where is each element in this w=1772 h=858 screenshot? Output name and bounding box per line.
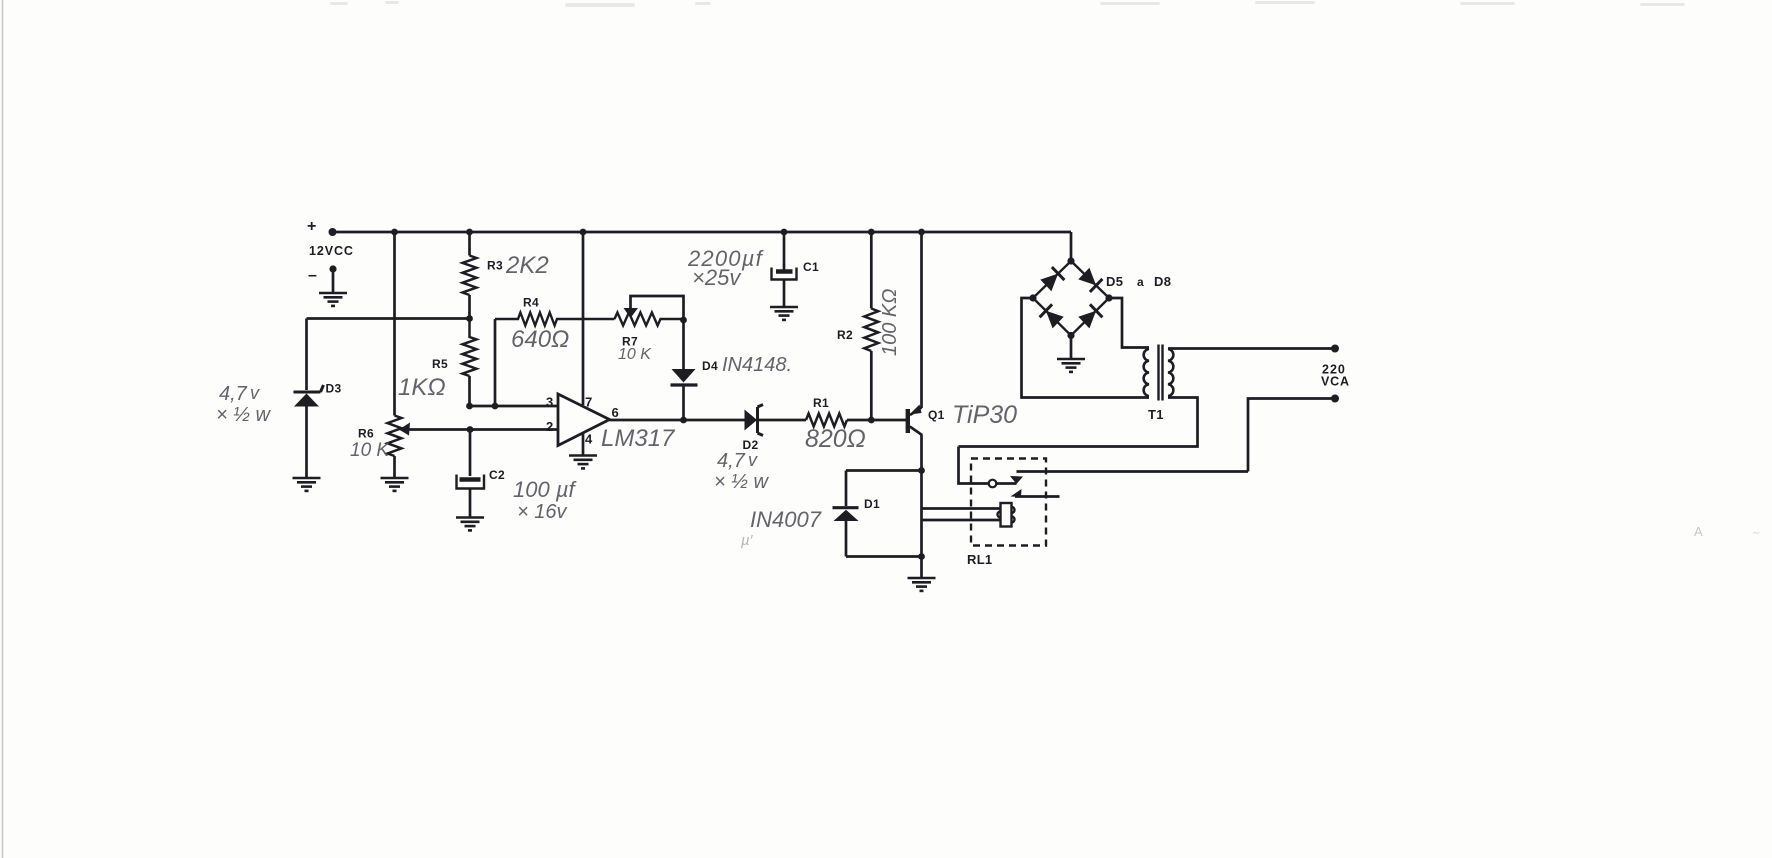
diode D4 1N4148 bbox=[671, 369, 698, 385]
svg-text:12VCC: 12VCC bbox=[309, 244, 354, 258]
svg-text:× ½ w: × ½ w bbox=[714, 471, 769, 493]
svg-text:820Ω: 820Ω bbox=[805, 425, 866, 453]
resistor R7 10K pot body bbox=[615, 313, 684, 326]
svg-text:D1: D1 bbox=[864, 497, 880, 511]
junction dot bridge left bbox=[1029, 294, 1036, 301]
wire D1 anode down bbox=[845, 521, 848, 557]
svg-text:4,7: 4,7 bbox=[717, 450, 746, 472]
junction dot Q1 rail bbox=[918, 229, 925, 236]
svg-text:×25v: ×25v bbox=[692, 265, 742, 290]
wire pin4 to ground bbox=[582, 433, 585, 456]
wire +12V top rail bbox=[333, 231, 1072, 234]
svg-text:C1: C1 bbox=[803, 260, 819, 274]
svg-text:T1: T1 bbox=[1148, 407, 1164, 422]
svg-text:10 K: 10 K bbox=[618, 346, 652, 363]
svg-text:2K2: 2K2 bbox=[505, 252, 549, 279]
svg-text:4: 4 bbox=[585, 432, 593, 447]
resistor R5 1K body bbox=[463, 319, 477, 377]
transistor Q1 emitter arrow bbox=[910, 405, 922, 415]
svg-text:2: 2 bbox=[546, 419, 554, 434]
junction dot R2 rail bbox=[868, 229, 875, 236]
svg-text:VCA: VCA bbox=[1321, 375, 1350, 389]
junction dot D4/output bbox=[680, 417, 687, 424]
junction dot D1 bottom bbox=[918, 553, 925, 560]
svg-text:R6: R6 bbox=[358, 427, 374, 441]
junction dot R2/output bbox=[868, 417, 875, 424]
transformer T1 core bbox=[1159, 345, 1163, 401]
wire Q1 emitter to rail bbox=[920, 232, 923, 408]
svg-text:v: v bbox=[250, 383, 260, 403]
wire pin3 input line bbox=[470, 405, 559, 408]
svg-text:R4: R4 bbox=[523, 296, 539, 310]
wire D3 cathode down bbox=[305, 407, 308, 479]
ground 12VCC negative bbox=[319, 293, 347, 306]
relay NO contact arrow bbox=[1010, 476, 1023, 484]
svg-text:× ½ w: × ½ w bbox=[216, 404, 271, 426]
wire relay common feed bbox=[959, 447, 990, 484]
relay pivot circle bbox=[989, 480, 997, 488]
ground C1 bbox=[770, 307, 798, 320]
capacitor C2 100uF bbox=[457, 475, 485, 489]
wire D4 cathode to output bbox=[682, 386, 685, 420]
svg-text:R3: R3 bbox=[487, 259, 503, 273]
capacitor C1 2200uF bbox=[772, 268, 797, 280]
wire bridge left to primary bbox=[1022, 298, 1150, 398]
wire relay common to contact bbox=[996, 482, 1016, 485]
wire - terminal to ground bbox=[332, 269, 335, 293]
svg-text:100 KΩ: 100 KΩ bbox=[879, 289, 901, 356]
transformer T1 primary winding bbox=[1144, 349, 1149, 396]
node 220VCA lower terminal bbox=[1331, 395, 1339, 403]
wire R7 wiper loop bbox=[631, 296, 684, 320]
svg-text:A: A bbox=[1694, 524, 1703, 539]
wire Q1 collector down bbox=[920, 435, 923, 579]
wire pin7 from rail bbox=[582, 232, 585, 405]
wire bridge bottom to ground bbox=[1070, 336, 1073, 360]
diode D6 upper-right bbox=[1078, 268, 1102, 292]
svg-text:µ′: µ′ bbox=[741, 532, 754, 549]
wire output R1 to Q1 bbox=[847, 419, 907, 422]
svg-text:a: a bbox=[1137, 275, 1144, 289]
junction dot R3 top rail bbox=[466, 229, 473, 236]
svg-text:D4: D4 bbox=[702, 359, 718, 373]
wire D4 anode from R7 bbox=[682, 320, 685, 369]
svg-text:640Ω: 640Ω bbox=[511, 326, 569, 353]
wire R2 top from rail bbox=[870, 232, 873, 309]
node 220VCA upper terminal bbox=[1331, 345, 1339, 353]
svg-text:Q1: Q1 bbox=[928, 408, 945, 422]
wire secondary top to output terminal bbox=[1168, 347, 1335, 350]
svg-text:100 µf: 100 µf bbox=[513, 477, 577, 502]
wire R3 bottom bbox=[468, 295, 471, 319]
diode D2 zener 4.7V bbox=[745, 405, 764, 436]
wire C1 bottom bbox=[783, 280, 786, 308]
wire R5 bottom to pin3 line bbox=[468, 376, 471, 406]
wire C2 top bbox=[469, 430, 472, 477]
svg-text:D3: D3 bbox=[326, 382, 342, 396]
wire op-amp output bbox=[610, 419, 746, 422]
junction dot R6 top rail bbox=[391, 229, 398, 236]
junction dot bridge right bbox=[1105, 294, 1112, 301]
transistor Q1 collector lead bbox=[910, 427, 922, 436]
svg-text:R5: R5 bbox=[432, 357, 448, 371]
svg-text:1KΩ: 1KΩ bbox=[398, 374, 446, 401]
svg-text:∼: ∼ bbox=[1752, 528, 1760, 539]
svg-text:R1: R1 bbox=[813, 396, 829, 410]
junction dot R7 right bbox=[680, 317, 687, 324]
wire R6 bottom to ground bbox=[393, 456, 396, 478]
wire D1 top link bbox=[846, 469, 922, 472]
svg-text:C2: C2 bbox=[489, 468, 505, 482]
relay RL1 coil bbox=[998, 503, 1015, 527]
junction dot R4/pin3 bbox=[492, 403, 499, 410]
junction dot C1 rail bbox=[781, 229, 788, 236]
bridge diamond wires bbox=[1033, 261, 1109, 336]
wire relay coil lead upper bbox=[922, 507, 1002, 510]
diode D8 lower-right bbox=[1078, 304, 1102, 328]
junction dot D1 top bbox=[918, 467, 925, 474]
wire relay NO contact line bbox=[1017, 470, 1249, 473]
wire D1 cathode up bbox=[845, 471, 848, 507]
node - terminal dot bbox=[329, 265, 336, 272]
svg-text:3: 3 bbox=[546, 395, 554, 410]
svg-text:D5: D5 bbox=[1106, 274, 1123, 289]
wire C1 top bbox=[783, 232, 786, 271]
ground bridge bbox=[1057, 359, 1085, 372]
svg-text:7: 7 bbox=[585, 395, 593, 410]
wire bridge right to primary bbox=[1109, 298, 1149, 348]
ground D3 bbox=[293, 478, 321, 491]
junction dot bridge bottom bbox=[1067, 332, 1074, 339]
diode D1 1N4007 bbox=[833, 508, 859, 521]
wire R3 top from rail bbox=[468, 232, 471, 256]
junction dot pin7 rail bbox=[580, 229, 587, 236]
wire R2 bottom bbox=[870, 351, 873, 420]
wire rail drop to bridge top bbox=[1070, 232, 1073, 261]
ground Q1 emitter circuit bbox=[908, 578, 936, 591]
wire relay NC stub bbox=[1015, 495, 1060, 498]
junction dot R5/pin3 bbox=[466, 403, 473, 410]
junction dot wiper/C2 bbox=[467, 426, 474, 433]
svg-text:v: v bbox=[748, 450, 758, 470]
svg-text:4,7: 4,7 bbox=[219, 383, 248, 405]
wire output D2 to R1 bbox=[759, 419, 806, 422]
junction dot bridge top bbox=[1067, 257, 1074, 264]
svg-text:LM317: LM317 bbox=[601, 425, 676, 452]
scan artifacts bbox=[2, 0, 4, 858]
svg-text:IN4007: IN4007 bbox=[750, 507, 822, 532]
svg-text:R2: R2 bbox=[837, 328, 853, 342]
R7 wiper arrow bbox=[624, 308, 639, 318]
relay NC contact arrow bbox=[1011, 489, 1022, 497]
wire R4 left branch down bbox=[494, 319, 497, 406]
svg-text:10 K: 10 K bbox=[350, 440, 390, 461]
wire secondary bottom to relay bbox=[959, 398, 1198, 447]
ground C2 bbox=[456, 518, 484, 531]
svg-text:TiP30: TiP30 bbox=[952, 401, 1017, 429]
resistor R6 10K pot body bbox=[388, 416, 402, 457]
wire R6 top from rail bbox=[393, 232, 396, 416]
R6 wiper arrow bbox=[399, 423, 410, 436]
transformer T1 secondary winding bbox=[1168, 349, 1173, 396]
svg-text:IN4148.: IN4148. bbox=[722, 354, 792, 376]
wire D3 anode up bbox=[305, 319, 308, 391]
resistor R2 100K body bbox=[864, 309, 878, 352]
resistor R1 820R body bbox=[806, 414, 847, 427]
transistor Q1 emitter lead bbox=[910, 408, 922, 416]
diode D7 lower-left bbox=[1040, 304, 1064, 328]
wire NO contact to output terminal bbox=[1248, 399, 1335, 472]
diode D5 upper-left bbox=[1040, 267, 1064, 291]
wire left bias line bbox=[307, 317, 470, 320]
svg-text:+: + bbox=[307, 218, 317, 235]
op-amp U1 triangle bbox=[558, 394, 610, 446]
svg-text:–: – bbox=[308, 267, 317, 284]
diode D3 zener 4.7V bbox=[294, 385, 324, 407]
resistor R3 2K2 body bbox=[463, 256, 477, 296]
svg-text:D8: D8 bbox=[1154, 274, 1171, 289]
node + terminal dot bbox=[329, 228, 337, 236]
wire relay coil lead lower bbox=[922, 519, 1002, 522]
wire C2 bottom bbox=[469, 489, 472, 518]
svg-text:RL1: RL1 bbox=[967, 552, 992, 567]
wire R6 wiper to pin2 bbox=[407, 428, 558, 431]
svg-text:× 16v: × 16v bbox=[517, 501, 567, 523]
wire D1 bottom link bbox=[846, 555, 922, 558]
ground op-amp pin4 bbox=[569, 456, 597, 469]
transistor Q1 base bar bbox=[906, 409, 910, 433]
resistor R4 640R body bbox=[495, 313, 615, 326]
svg-text:6: 6 bbox=[612, 405, 620, 420]
ground R6 bbox=[381, 478, 409, 491]
relay RL1 dashed box bbox=[971, 459, 1046, 546]
junction dot bias/R3-R5 bbox=[466, 315, 473, 322]
